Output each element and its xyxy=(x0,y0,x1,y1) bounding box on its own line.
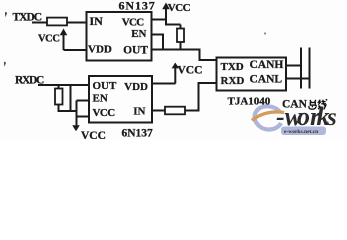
wire VCC arrow to U2 pin VDD xyxy=(152,83,176,85)
svg-text:RXD: RXD xyxy=(221,75,245,87)
svg-text:IN: IN xyxy=(133,106,145,118)
transceiver U3 TJA1040 body xyxy=(217,58,287,91)
wire RXDC to U2 pin OUT xyxy=(38,84,89,86)
wire U2 EN pin xyxy=(77,100,90,102)
wire U2 VCC pin xyxy=(77,116,90,118)
optocoupler U1 6N137 body xyxy=(87,12,152,61)
svg-text:VCC: VCC xyxy=(122,17,144,29)
svg-text:OUT: OUT xyxy=(93,80,118,92)
svg-text:VDD: VDD xyxy=(124,81,148,93)
svg-text:6N137: 6N137 xyxy=(122,128,154,140)
svg-text:VCC: VCC xyxy=(38,34,60,45)
power VCC (top right) xyxy=(162,2,190,14)
wire U1 EN pin to OUT net xyxy=(152,35,164,50)
svg-text:EN: EN xyxy=(131,28,146,40)
svg-text:CAN: CAN xyxy=(282,99,308,111)
resistor R2 pull-up xyxy=(177,25,184,50)
svg-text:CANH: CANH xyxy=(250,59,284,71)
wire U1 OUT to TJA1040 TXD xyxy=(152,50,217,61)
power VCC (bottom, arrow down) xyxy=(72,101,106,142)
svg-text:IN: IN xyxy=(90,14,104,28)
wire VCC arrow to U1 pin VDD xyxy=(64,49,87,51)
resistor R3 xyxy=(165,107,185,115)
wire U1 VCC pin to VCC rail xyxy=(152,19,167,21)
wire CANL xyxy=(286,78,310,80)
wire TXDC to R1 xyxy=(32,22,47,24)
resistor R1 xyxy=(47,18,67,26)
svg-text:EN: EN xyxy=(93,93,108,105)
power VCC (middle, U2 VDD) xyxy=(172,63,203,84)
wire R1 to U1 pin IN xyxy=(67,22,87,24)
svg-text:TXD: TXD xyxy=(221,61,244,73)
svg-text:VCC: VCC xyxy=(93,107,116,119)
svg-text:OUT: OUT xyxy=(123,45,148,57)
label CAN bus (CAN Zongxian) xyxy=(282,99,327,111)
svg-text:e-works.net.cn: e-works.net.cn xyxy=(284,129,318,135)
wire R3 to U2 pin IN xyxy=(152,110,165,112)
wire CANH xyxy=(286,65,301,67)
wire bottom junction horizontal xyxy=(58,110,77,112)
bus line CANH xyxy=(300,48,302,89)
svg-text:VCC: VCC xyxy=(168,2,191,14)
svg-text:VCC: VCC xyxy=(81,130,106,139)
resistor R4 pull-up xyxy=(55,85,63,111)
svg-text:TJA1040: TJA1040 xyxy=(228,96,271,108)
svg-text:VCC: VCC xyxy=(178,65,203,77)
svg-text:s: s xyxy=(326,104,337,131)
wire VCC rail down and over to R2 xyxy=(166,8,181,25)
svg-text:6N137: 6N137 xyxy=(119,0,156,13)
optocoupler U2 6N137 body xyxy=(89,76,152,123)
wire TJA1040 RXD down to R3 xyxy=(185,83,217,111)
power VCC (left) xyxy=(38,29,67,51)
svg-text:CANL: CANL xyxy=(250,74,283,86)
wire vertical from RXDC net down xyxy=(70,85,72,111)
svg-text:VDD: VDD xyxy=(88,44,112,56)
bus line CANL xyxy=(309,48,311,89)
